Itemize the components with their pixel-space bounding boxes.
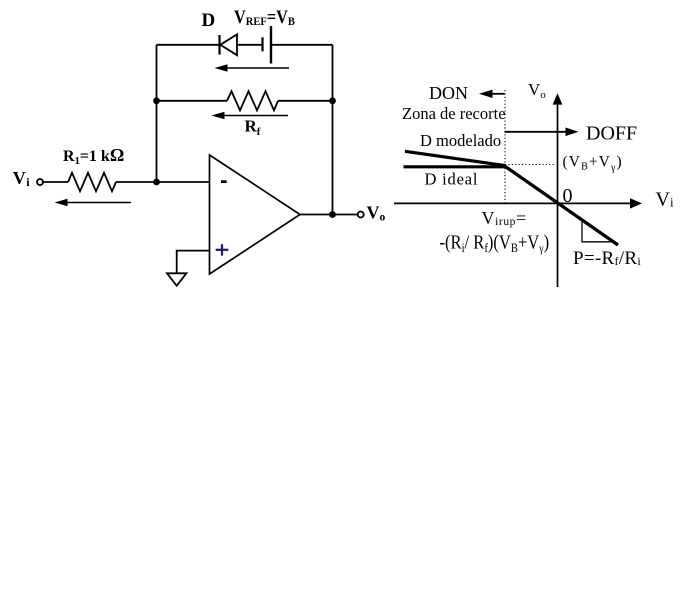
wire node to Rf: [157, 100, 228, 102]
transfer curve steep segment: [504, 166, 618, 245]
inverting input marker -: [221, 180, 227, 183]
svg-text:Vo: Vo: [367, 202, 386, 223]
wire diode to battery: [237, 44, 263, 46]
ground: [167, 273, 186, 286]
wire input terminal to R1: [43, 181, 68, 183]
current arrow Rf branch: [221, 115, 288, 117]
svg-text:Vi: Vi: [13, 168, 31, 189]
diode D: [218, 35, 220, 55]
current arrow at input: [64, 202, 131, 204]
non-inverting input marker +: [216, 249, 229, 251]
svg-text:D ideal: D ideal: [425, 170, 479, 189]
svg-text:(VB+Vγ): (VB+Vγ): [563, 154, 623, 174]
svg-text:Vo: Vo: [528, 80, 546, 101]
resistor Rf: [227, 91, 278, 110]
svg-text:D modelado: D modelado: [420, 131, 501, 150]
wire left vertical: [156, 45, 158, 182]
battery VREF (short negative bar): [261, 37, 263, 51]
DOFF arrow: [505, 131, 567, 133]
battery VREF (long positive bar): [270, 26, 272, 64]
svg-text:P=-Rf/Ri: P=-Rf/Ri: [573, 248, 641, 269]
graph vertical axis Vo: [557, 103, 559, 287]
wire R1 to node A: [116, 181, 210, 183]
wire Rf to right vertical: [278, 100, 333, 102]
svg-text:-(Ri/ Rf)(VB+Vγ): -(Ri/ Rf)(VB+Vγ): [440, 231, 550, 255]
wire top branch to diode: [157, 44, 220, 46]
output wire: [300, 214, 358, 216]
input terminal Vi: [37, 179, 43, 185]
dotted horizontal line: [505, 164, 556, 166]
transfer curve D modelado: [405, 151, 505, 165]
svg-text:R1=1 kΩ: R1=1 kΩ: [63, 145, 124, 167]
DON arrow: [491, 93, 505, 95]
svg-text:Zona de recorte: Zona de recorte: [402, 104, 506, 123]
svg-text:0: 0: [563, 185, 573, 207]
output junction dot: [329, 211, 336, 218]
output terminal Vo: [358, 212, 364, 218]
svg-text:Rf: Rf: [245, 117, 261, 139]
svg-text:Virup=: Virup=: [482, 208, 527, 228]
junction dot right Rf node: [329, 97, 336, 104]
svg-text:Vi: Vi: [656, 189, 674, 211]
current arrow diode branch: [224, 67, 289, 69]
graph horizontal axis Vi: [394, 202, 631, 204]
wire right vertical: [332, 45, 334, 215]
node A junction dot: [153, 179, 160, 186]
wire battery to right vertical: [271, 44, 333, 46]
transfer curve D ideal: [404, 165, 506, 168]
op-amp U1: [210, 155, 301, 274]
junction dot left Rf node: [153, 97, 160, 104]
svg-text:D: D: [202, 10, 216, 31]
svg-text:VREF=VB: VREF=VB: [234, 6, 295, 28]
slope bracket: [582, 221, 612, 242]
svg-text:DON: DON: [429, 83, 468, 103]
wire non-inverting input to ground: [177, 251, 210, 274]
svg-text:DOFF: DOFF: [586, 123, 637, 145]
resistor R1: [68, 173, 116, 191]
dotted vertical line: [504, 90, 506, 203]
